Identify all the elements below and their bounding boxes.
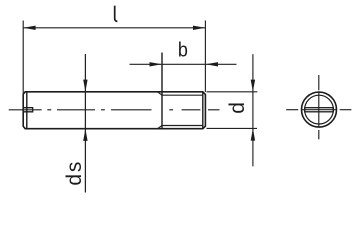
thread runout diagonal bottom — [158, 126, 162, 129]
l extension line left — [22, 21, 24, 95]
d arrowhead top (pointing down) — [251, 80, 255, 92]
b arrowhead left (pointing right) — [150, 62, 162, 66]
right chamfer edge line — [202, 92, 204, 129]
b arrowhead right (pointing left) — [206, 62, 218, 66]
slot (side view notch) — [23, 108, 33, 112]
svg-text:d: d — [226, 102, 249, 114]
ds arrowhead bottom (pointing up) — [83, 129, 87, 141]
end view vertical centerline — [318, 75, 320, 139]
end view inner circle — [305, 95, 334, 124]
left chamfer edge line — [26, 92, 28, 129]
thread minor diameter line top — [162, 94, 203, 96]
end view horizontal centerline — [286, 109, 351, 111]
svg-text:ds: ds — [63, 160, 86, 186]
l dimension line — [23, 27, 205, 29]
screw body outline — [23, 92, 205, 129]
b dimension line — [130, 63, 237, 65]
svg-text:b: b — [178, 40, 188, 62]
end view outer circle — [302, 92, 337, 127]
ds dimension line — [84, 54, 86, 193]
d extension line top — [207, 91, 258, 93]
thread start line / b extension line — [161, 53, 163, 129]
l arrowhead left — [23, 26, 35, 30]
d extension line bottom — [207, 127, 258, 129]
ds arrowhead top (pointing down) — [83, 80, 87, 92]
d arrowhead bottom (pointing up) — [251, 128, 255, 140]
end view slot — [305, 108, 334, 112]
l extension line right — [204, 21, 206, 92]
l arrowhead right — [193, 26, 205, 30]
centerline of screw axis — [9, 109, 220, 111]
d dimension line — [252, 54, 254, 166]
label l — [115, 6, 118, 22]
thread minor diameter line bottom — [162, 125, 203, 127]
thread runout diagonal top — [158, 92, 162, 95]
